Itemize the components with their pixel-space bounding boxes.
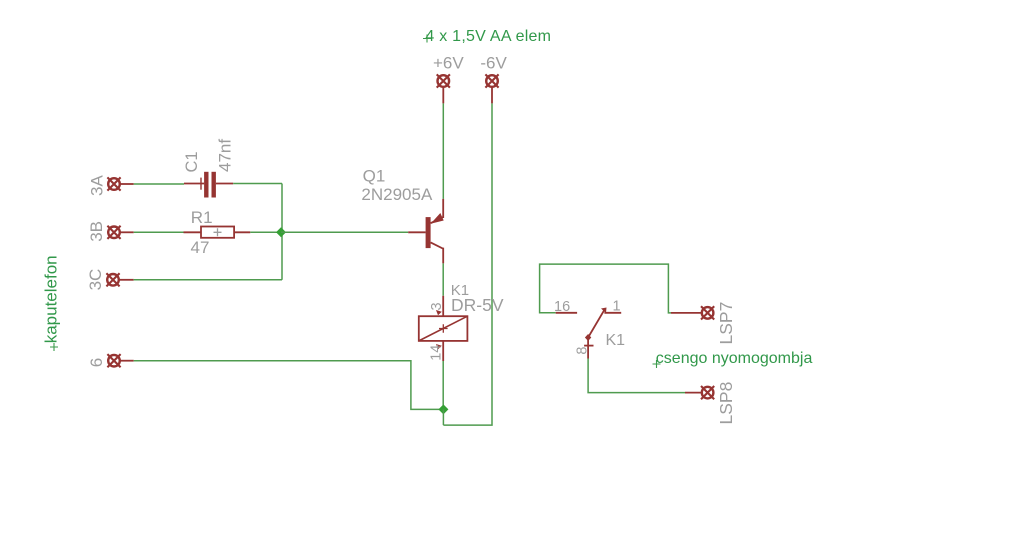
text origin cross: [423, 35, 431, 43]
svg-text:14: 14: [429, 345, 445, 361]
text origin cross: [50, 343, 58, 351]
svg-text:csengo nyomogombja: csengo nyomogombja: [656, 350, 813, 367]
pad LSP8: [685, 386, 714, 399]
svg-text:3A: 3A: [88, 175, 107, 196]
relay contact K1: [556, 308, 622, 359]
pad 3C: [106, 273, 133, 286]
svg-text:kaputelefon: kaputelefon: [42, 255, 61, 343]
wire 3C to vertical: [134, 279, 282, 281]
pad 6: [107, 354, 133, 367]
svg-text:4 x 1,5V AA elem: 4 x 1,5V AA elem: [425, 28, 551, 45]
wire R1 to junction: [250, 231, 281, 233]
wire junction to -6V rail: [442, 409, 444, 425]
relay coil K1: [419, 296, 468, 361]
svg-text:C1: C1: [183, 151, 201, 172]
wire C1 to vertical: [233, 183, 282, 185]
wire Q1 collector to K1 coil: [442, 263, 444, 295]
wire vertical branch: [281, 184, 283, 280]
svg-text:LSP7: LSP7: [716, 302, 736, 345]
svg-text:+6V: +6V: [433, 54, 464, 73]
svg-text:2N2905A: 2N2905A: [361, 185, 433, 204]
pad 3B: [107, 226, 133, 239]
wire +6V to Q1 emitter: [442, 103, 444, 198]
svg-text:LSP8: LSP8: [716, 382, 736, 425]
capacitor C1: [184, 172, 233, 198]
svg-text:3C: 3C: [86, 269, 105, 291]
svg-text:47nf: 47nf: [216, 139, 235, 172]
svg-text:6: 6: [87, 358, 106, 367]
junction node: [276, 227, 286, 237]
junction node bottom: [438, 404, 448, 414]
wire contact pin8 to LSP8: [588, 359, 685, 393]
svg-text:8: 8: [574, 347, 590, 355]
svg-text:3B: 3B: [87, 221, 106, 242]
wire 3B to R1: [134, 231, 184, 233]
pad LSP7: [671, 306, 714, 319]
pad +6V: [437, 74, 450, 103]
pad 3A: [107, 177, 133, 190]
svg-text:Q1: Q1: [363, 166, 386, 185]
resistor R1: [184, 227, 251, 238]
wire 3A to C1: [134, 183, 184, 185]
svg-text:K1: K1: [606, 332, 626, 349]
wire K1 coil to junction: [442, 361, 444, 409]
svg-text:-6V: -6V: [480, 54, 507, 73]
svg-text:R1: R1: [191, 208, 213, 227]
pad -6V: [485, 74, 498, 103]
text origin cross: [653, 360, 661, 368]
wire contact loop: [540, 264, 671, 313]
transistor Q1: [408, 199, 443, 264]
wire 6 to junction: [134, 361, 444, 410]
wire -6V rail down: [443, 103, 492, 425]
svg-text:DR-5V: DR-5V: [451, 295, 504, 315]
svg-text:47: 47: [191, 238, 210, 257]
wire junction to Q1 base: [281, 231, 408, 233]
